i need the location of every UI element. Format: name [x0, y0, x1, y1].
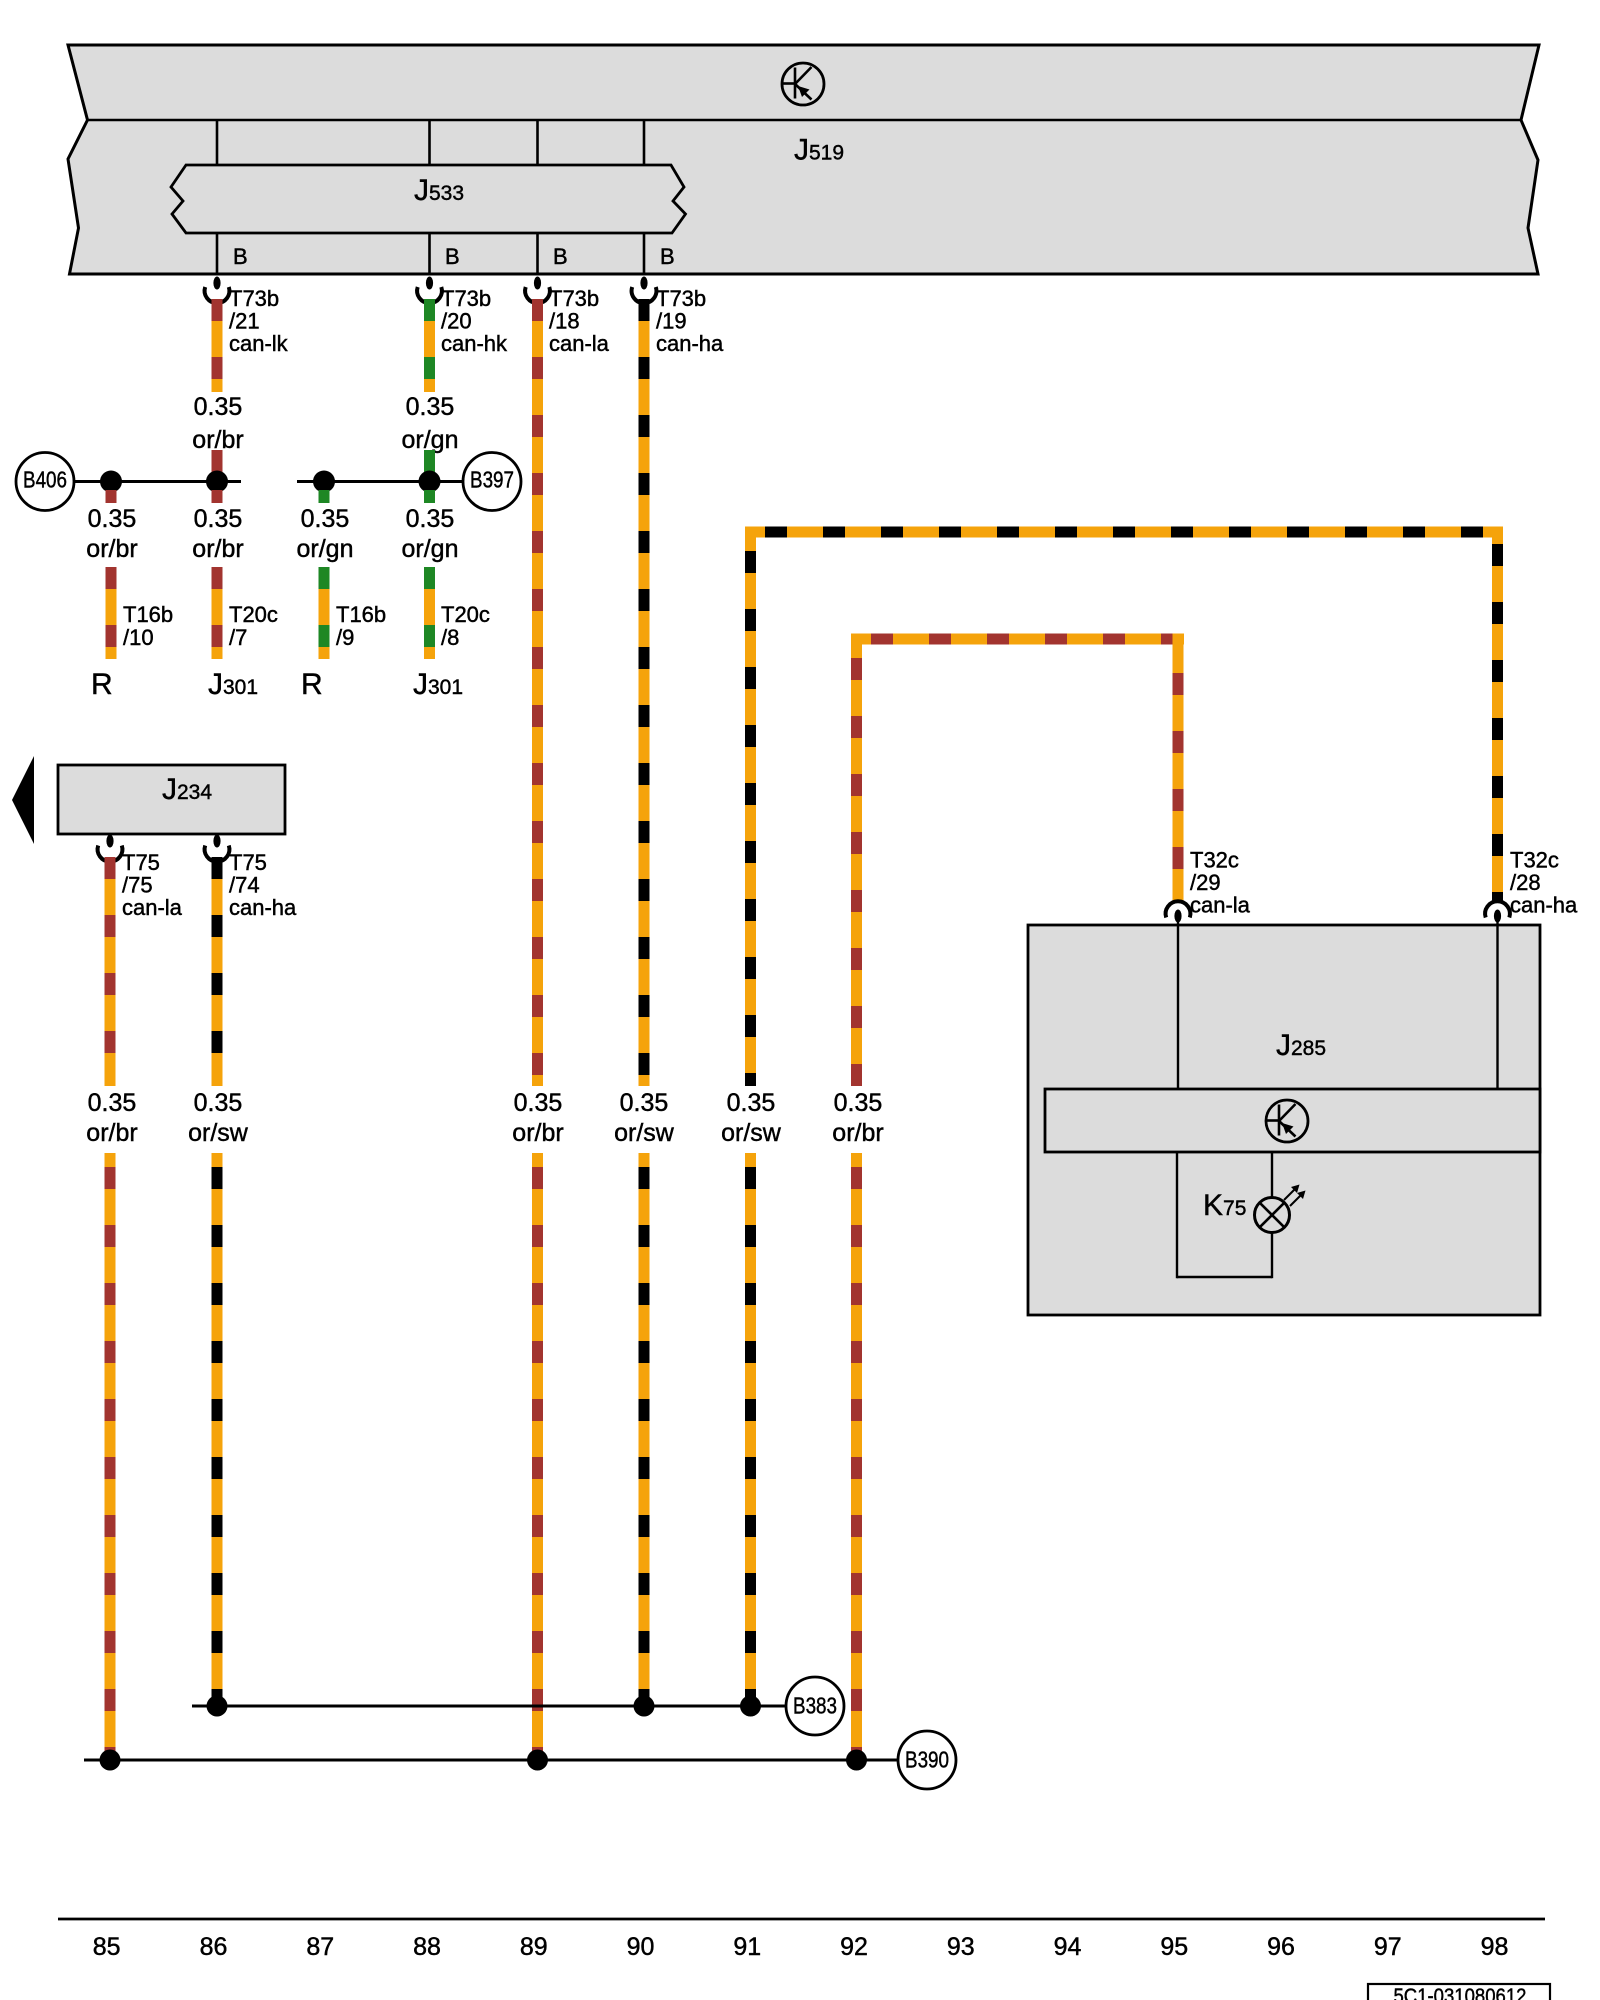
- wire or/gn from T73b/20: [424, 299, 435, 392]
- svg-text:R: R: [301, 668, 323, 701]
- control unit symbol K in circle (J519): [782, 63, 824, 105]
- svg-text:5C1-031080612: 5C1-031080612: [1394, 1985, 1527, 2000]
- control unit J533 gateway box: [171, 165, 686, 233]
- svg-text:T32c/28can-ha: T32c/28can-ha: [1510, 848, 1578, 918]
- wire or/br from T75/75 upper: [105, 857, 116, 1086]
- svg-text:90: 90: [627, 1933, 655, 1961]
- svg-text:85: 85: [93, 1933, 121, 1961]
- svg-text:J301: J301: [413, 668, 463, 701]
- svg-text:T73b/21can-lk: T73b/21can-lk: [229, 286, 289, 356]
- svg-text:B390: B390: [905, 1747, 949, 1773]
- wire stub or/br below junction col85: [106, 490, 117, 503]
- wire or/gn to T16b/9: [319, 567, 330, 659]
- svg-text:0.35or/br: 0.35or/br: [192, 393, 243, 454]
- wire or/sw from T75/74 upper: [212, 857, 223, 1086]
- svg-text:92: 92: [840, 1933, 868, 1961]
- svg-text:0.35or/br: 0.35or/br: [832, 1089, 883, 1147]
- svg-text:94: 94: [1054, 1933, 1082, 1961]
- wire internal from T32c/28: [1496, 925, 1498, 1089]
- svg-text:T73b/20can-hk: T73b/20can-hk: [441, 286, 508, 356]
- control unit J285 instrument cluster box: [1028, 925, 1540, 1315]
- svg-text:89: 89: [520, 1933, 548, 1961]
- connector pin T73b/21: [205, 277, 230, 304]
- svg-text:T73b/19can-ha: T73b/19can-ha: [656, 286, 724, 356]
- junction dot B390 col89: [527, 1750, 548, 1771]
- junction dot B390 col92: [846, 1750, 867, 1771]
- svg-text:B: B: [553, 244, 568, 269]
- wire or/sw from T73b/19 upper run: [639, 299, 650, 1086]
- wire or/br to T16b/10: [106, 567, 117, 659]
- wire or/br col92 lower run: [851, 1153, 862, 1760]
- wire or/gn to T20c/8: [424, 567, 435, 659]
- svg-text:T20c/8: T20c/8: [441, 602, 490, 650]
- svg-text:0.35or/br: 0.35or/br: [512, 1089, 563, 1147]
- svg-text:0.35or/gn: 0.35or/gn: [297, 505, 354, 563]
- svg-text:97: 97: [1374, 1933, 1402, 1961]
- svg-text:88: 88: [413, 1933, 441, 1961]
- junction dot B383 col86: [207, 1696, 228, 1717]
- svg-text:T16b/9: T16b/9: [336, 602, 386, 650]
- svg-text:0.35or/br: 0.35or/br: [86, 1089, 137, 1147]
- connector pin T75/74: [205, 835, 230, 862]
- wire J533 pin stub 4: [643, 120, 646, 275]
- junction dot col87 group2: [313, 471, 335, 493]
- wire stub or/br below junction col86: [212, 490, 223, 503]
- wire splice line B406: [75, 480, 241, 483]
- wire splice line B383: [192, 1705, 785, 1708]
- svg-text:0.35or/sw: 0.35or/sw: [188, 1089, 249, 1147]
- svg-text:B: B: [445, 244, 460, 269]
- connector pin T73b/19: [632, 277, 657, 304]
- control unit J519 onboard supply control unit body: [68, 45, 1539, 274]
- node B406 splice circle: [16, 453, 74, 511]
- junction dot col86 group1: [206, 471, 228, 493]
- wire or/sw col86 lower run: [212, 1153, 223, 1706]
- wire or/br from T73b/21: [212, 299, 223, 392]
- wire internal bar to lamp: [1271, 1152, 1273, 1198]
- junction dot col85 group1: [100, 471, 122, 493]
- svg-text:86: 86: [200, 1933, 228, 1961]
- svg-text:95: 95: [1160, 1933, 1188, 1961]
- wire stub or/gn below junction col87: [319, 490, 330, 503]
- svg-text:T32c/29can-la: T32c/29can-la: [1190, 848, 1251, 918]
- wire splice line B390: [84, 1759, 897, 1762]
- wire or/sw col91 lower run: [745, 1153, 756, 1706]
- wire or/sw can-ha routed run (col91 to T32c/28): [745, 527, 1503, 1087]
- svg-text:96: 96: [1267, 1933, 1295, 1961]
- connector pin T73b/20: [417, 277, 442, 304]
- svg-text:B: B: [233, 244, 248, 269]
- diagram number box 5C1-031080612: [1368, 1984, 1550, 2000]
- connector pin T32c/29: [1166, 901, 1191, 926]
- junction dot B390 col85: [100, 1750, 121, 1771]
- svg-text:0.35or/gn: 0.35or/gn: [402, 393, 459, 454]
- wire or/br to T20c/7: [212, 567, 223, 659]
- junction dot B383 col90: [634, 1696, 655, 1717]
- svg-text:B397: B397: [470, 467, 514, 493]
- svg-text:T16b/10: T16b/10: [123, 602, 173, 650]
- svg-text:B406: B406: [23, 467, 67, 493]
- svg-text:T75/75can-la: T75/75can-la: [122, 850, 183, 920]
- direction arrow to previous current track: [12, 756, 34, 844]
- wire or/br col85 lower run: [105, 1153, 116, 1760]
- node B397 splice circle: [463, 453, 521, 511]
- wire J533 pin stub 1: [216, 120, 219, 275]
- wire internal lamp loop: [1177, 1152, 1272, 1278]
- svg-text:J301: J301: [208, 668, 258, 701]
- junction dot col88 group2: [419, 471, 441, 493]
- wire stub or/br above junction col86: [212, 450, 223, 474]
- svg-text:T73b/18can-la: T73b/18can-la: [549, 286, 610, 356]
- svg-text:98: 98: [1481, 1933, 1509, 1961]
- svg-text:B383: B383: [793, 1693, 837, 1719]
- svg-text:0.35or/gn: 0.35or/gn: [402, 505, 459, 563]
- connector pin T73b/18: [525, 277, 550, 304]
- svg-text:R: R: [91, 668, 113, 701]
- wire splice line B397: [297, 480, 462, 483]
- wire or/br col89 lower run: [532, 1153, 543, 1760]
- lamp K75 symbol circle with cross: [1255, 1198, 1290, 1233]
- svg-text:0.35or/sw: 0.35or/sw: [721, 1089, 782, 1147]
- wire or/sw col90 lower run: [639, 1153, 650, 1706]
- svg-text:B: B: [660, 244, 675, 269]
- svg-text:91: 91: [733, 1933, 761, 1961]
- lamp light arrows: [1284, 1185, 1306, 1207]
- control unit inner bar J285: [1045, 1089, 1540, 1152]
- wire J533 pin stub 3: [536, 120, 539, 275]
- node B390 splice circle: [898, 1731, 956, 1789]
- wire stub or/gn above junction col88: [424, 450, 435, 474]
- svg-text:T75/74can-ha: T75/74can-ha: [229, 850, 297, 920]
- wire J533 pin stub 2: [428, 120, 431, 275]
- wire stub or/gn below junction col88: [424, 490, 435, 503]
- node B383 splice circle: [786, 1677, 844, 1735]
- control unit J234 airbag control unit box: [58, 765, 285, 834]
- svg-text:0.35or/br: 0.35or/br: [86, 505, 137, 563]
- svg-text:87: 87: [306, 1933, 334, 1961]
- svg-text:93: 93: [947, 1933, 975, 1961]
- svg-text:0.35or/br: 0.35or/br: [192, 505, 243, 563]
- wire or/br from T73b/18 upper run: [532, 299, 543, 1086]
- svg-text:T20c/7: T20c/7: [229, 602, 278, 650]
- connector pin T32c/28: [1485, 901, 1510, 926]
- wire or/br can-la routed run (col92 to T32c/29): [851, 634, 1184, 1087]
- svg-text:0.35or/sw: 0.35or/sw: [614, 1089, 675, 1147]
- connector pin T75/75: [98, 835, 123, 862]
- control unit symbol K in circle (J285): [1266, 1100, 1308, 1142]
- junction dot B383 col91: [740, 1696, 761, 1717]
- current track scale line: [58, 1918, 1545, 1921]
- wire internal from T32c/29: [1177, 925, 1179, 1089]
